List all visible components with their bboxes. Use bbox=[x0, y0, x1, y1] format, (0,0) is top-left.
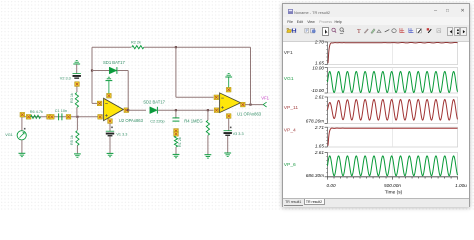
junction C2 branch bbox=[175, 109, 177, 111]
svg-text:VG1: VG1 bbox=[284, 76, 294, 82]
feedback vertical x=92 bbox=[91, 47, 93, 103]
svg-text:1.00u: 1.00u bbox=[455, 183, 467, 188]
plot box VF1 bbox=[328, 42, 458, 65]
plot box VP_11 bbox=[328, 97, 458, 123]
svg-text:678.26m: 678.26m bbox=[306, 119, 324, 124]
plot box VG1 bbox=[328, 68, 458, 94]
trace VF1 bbox=[328, 42, 458, 62]
trace VP_4 bbox=[328, 128, 458, 145]
wire V3 to ground bbox=[227, 136, 229, 153]
toolbar: line tool bbox=[384, 27, 391, 36]
toolbar: copy curve icon bbox=[310, 27, 317, 36]
waveform viewer window bbox=[282, 3, 470, 207]
U2 top power pin to flipped ground bbox=[107, 93, 112, 98]
U1 bottom power pin bbox=[226, 114, 231, 119]
title bar bbox=[283, 4, 469, 17]
U2 input terminals bbox=[97, 101, 102, 106]
sine generator VG1 bbox=[17, 128, 26, 140]
feedback to U1 inverting input bbox=[175, 47, 177, 97]
svg-text:VF1: VF1 bbox=[284, 50, 293, 56]
toolbar: red axes icon bbox=[399, 27, 406, 36]
wire ground to V2 bbox=[76, 64, 78, 73]
resistor R5 1k bbox=[76, 117, 78, 130]
toolbar: zoom out bbox=[339, 27, 346, 36]
U2 output net to U1 bbox=[128, 109, 146, 111]
toolbar: zoom in bbox=[331, 27, 338, 36]
voltage pin VF1 bbox=[263, 102, 266, 107]
tab bar bbox=[283, 198, 469, 207]
svg-text:2.61: 2.61 bbox=[314, 95, 325, 100]
battery V1 3.3 bbox=[106, 131, 114, 136]
U1 top power pin to flipped ground bbox=[226, 87, 231, 92]
svg-text:10.00: 10.00 bbox=[312, 65, 324, 70]
ground below V3 bbox=[224, 153, 231, 156]
svg-text:VP_6: VP_6 bbox=[284, 162, 296, 168]
tab TR result1 bbox=[284, 200, 303, 207]
battery V2 3.3 bbox=[73, 74, 81, 79]
plot box VP_6 bbox=[328, 153, 458, 177]
junction U1 output / feedback bbox=[249, 104, 251, 106]
svg-text:-10.00: -10.00 bbox=[311, 88, 325, 93]
toolbar: next page button bbox=[460, 27, 467, 36]
trace VP_6 bbox=[328, 156, 458, 176]
menu bar bbox=[283, 17, 469, 25]
feedback from output up to top line bbox=[250, 47, 252, 104]
ground below R1 bbox=[173, 154, 180, 157]
U2 bottom power pin bbox=[108, 119, 113, 124]
ground below VG1 bbox=[19, 153, 26, 156]
svg-text:2.71: 2.71 bbox=[314, 125, 325, 130]
diode SD1 BAT17 bbox=[92, 70, 109, 72]
app icon bbox=[288, 9, 293, 14]
wire VG1 to R6 node bbox=[21, 113, 23, 131]
svg-text:686.30m: 686.30m bbox=[306, 173, 324, 178]
toolbar: save icon bbox=[291, 27, 298, 36]
wire V1 to ground bbox=[109, 137, 111, 154]
maximize button bbox=[446, 9, 449, 14]
plot box VP_4 bbox=[328, 127, 458, 147]
junction SD1 cathode / U2 output net bbox=[127, 109, 129, 111]
svg-text:VP_4: VP_4 bbox=[284, 127, 296, 133]
trace VP_11 bbox=[328, 100, 458, 121]
junction SD1 anode / inverting net bbox=[91, 69, 93, 71]
SD1 cathode down to U2 output net bbox=[127, 71, 129, 111]
toolbar: export/edit icon bbox=[416, 27, 423, 36]
battery V3 3.3 bbox=[224, 131, 232, 136]
U2 output terminal bbox=[124, 108, 129, 113]
resistor R1 2k bbox=[174, 136, 177, 147]
toolbar: copy image icon bbox=[304, 27, 311, 36]
U1 input terminals bbox=[214, 95, 219, 100]
resistor R3 1k bbox=[76, 86, 78, 92]
svg-text:2.70: 2.70 bbox=[314, 40, 325, 45]
toolbar: open icon bbox=[286, 27, 293, 36]
main input wire y=116.8 bbox=[22, 116, 100, 118]
toolbar: pages button bbox=[454, 27, 461, 36]
svg-text:500.00n: 500.00n bbox=[384, 183, 401, 188]
U1 output terminal bbox=[241, 102, 246, 107]
op-amp U2 OPAx863 bbox=[104, 98, 124, 120]
ground below R4 bbox=[205, 155, 212, 158]
junction top line / U1 feedback tap bbox=[175, 46, 177, 48]
top feedback line with R2 2k bbox=[92, 46, 131, 48]
svg-text:0.00: 0.00 bbox=[326, 183, 336, 188]
toolbar: blue axes icon bbox=[408, 27, 415, 36]
resistor R4 1MEG bbox=[207, 110, 209, 120]
ground below R5 bbox=[74, 154, 81, 157]
resistor R6 4.7k bbox=[20, 112, 25, 117]
capacitor C2 220p bbox=[175, 110, 177, 117]
wire VG1 to ground bbox=[21, 140, 23, 153]
toolbar: pen2 tool bbox=[370, 27, 377, 36]
close button bbox=[461, 9, 465, 14]
junction R4 branch bbox=[207, 109, 209, 111]
toolbar: pen tool bbox=[363, 27, 370, 36]
toolbar: prev page button bbox=[447, 27, 454, 36]
toolbar: cursor tool (pressed) bbox=[322, 27, 329, 36]
op-amp U1 OPAx863 bbox=[220, 93, 241, 113]
U1 output wire to VF1 pin bbox=[245, 104, 263, 106]
minimize button bbox=[434, 8, 437, 14]
toolbar bbox=[283, 25, 469, 42]
toolbar: pen black icon bbox=[426, 27, 433, 36]
svg-text:2.61: 2.61 bbox=[314, 150, 325, 155]
tab TR result2 (active) bbox=[304, 199, 325, 205]
ground below V1 bbox=[107, 153, 114, 156]
flipped ground above V2 bbox=[73, 61, 80, 64]
node junction R3/R5/C1 bbox=[76, 116, 78, 118]
title text bbox=[294, 10, 330, 15]
capacitor C1 10n bbox=[59, 113, 62, 120]
svg-text:Time (s): Time (s) bbox=[385, 189, 403, 195]
svg-text:VP_11: VP_11 bbox=[284, 105, 299, 111]
toolbar: disabled icon bbox=[436, 27, 443, 36]
toolbar: ruler tool bbox=[376, 27, 383, 36]
diode SD2 BAT17 bbox=[150, 107, 158, 114]
toolbar: text tool bbox=[356, 27, 363, 36]
toolbar: ellipse tool bbox=[391, 27, 398, 36]
svg-text:1.65: 1.65 bbox=[315, 144, 325, 149]
trace VG1 bbox=[328, 72, 458, 93]
time axis bbox=[328, 176, 458, 178]
